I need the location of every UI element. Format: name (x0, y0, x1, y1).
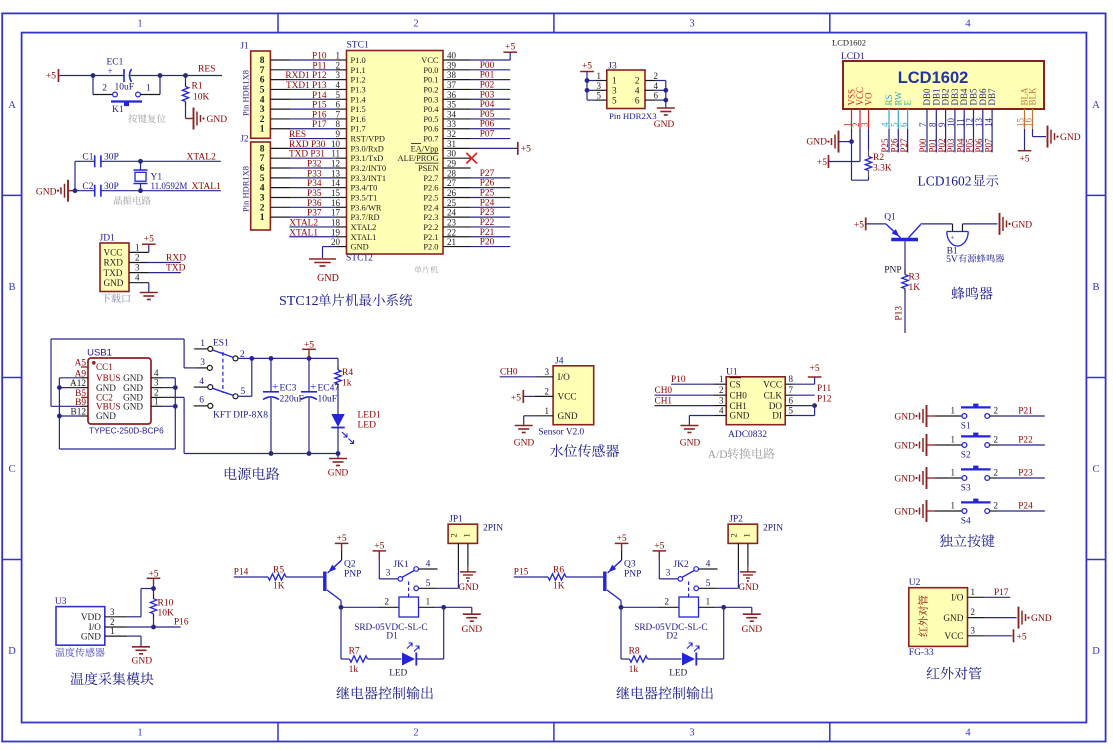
node J3 pin3 (585, 88, 590, 93)
svg-text:GND: GND (558, 412, 578, 422)
svg-text:P21: P21 (1018, 407, 1033, 417)
svg-text:30: 30 (447, 149, 457, 159)
svg-text:P07: P07 (480, 130, 495, 140)
ground relay (743, 613, 761, 615)
wire S4 left (935, 510, 962, 512)
node C2 GND (73, 188, 78, 193)
svg-text:1K: 1K (909, 283, 921, 293)
title 蜂鸣器 (951, 287, 992, 300)
svg-text:LED1: LED1 (358, 411, 381, 421)
svg-text:K1: K1 (112, 105, 124, 115)
svg-text:10K: 10K (193, 93, 210, 103)
ground relay (463, 613, 481, 615)
svg-text:2: 2 (260, 203, 265, 213)
svg-text:24: 24 (447, 208, 457, 218)
wire Q1 collector to buzzer (921, 223, 953, 225)
wires J3 right pins (645, 80, 655, 82)
svg-text:GND: GND (81, 632, 101, 642)
svg-text:R4: R4 (342, 368, 353, 378)
svg-text:4: 4 (135, 273, 140, 283)
wire P11 U1 (793, 394, 815, 396)
svg-text:5: 5 (241, 387, 246, 397)
node reset left (91, 73, 96, 78)
svg-text:GND: GND (738, 583, 758, 593)
wire R2 bottom to VSS (852, 179, 869, 181)
wire C1 left to vertical (75, 160, 95, 162)
node J3 pin6 (663, 98, 668, 103)
node Q2 collector (339, 605, 344, 610)
JP2 pin1 wire (747, 543, 749, 566)
svg-text:GND: GND (123, 402, 143, 412)
label 红外对管 inside U2 (918, 595, 928, 636)
USB1 pin stubs left (81, 366, 88, 368)
svg-text:XTAL1: XTAL1 (192, 182, 222, 192)
svg-text:JD1: JD1 (100, 234, 116, 244)
svg-text:13: 13 (331, 168, 341, 178)
svg-text:6: 6 (789, 396, 794, 406)
ground MCU pin 20 (336, 246, 347, 248)
resistor R5 (268, 574, 286, 580)
svg-text:TXD: TXD (104, 268, 123, 278)
wire ES1 pin2 to rail (238, 357, 252, 359)
ground J4 (524, 415, 535, 417)
svg-text:LCD1602: LCD1602 (918, 174, 972, 189)
capacitor EC47 (308, 358, 310, 391)
power +5 JD1 (148, 245, 150, 253)
svg-text:+5: +5 (817, 158, 827, 168)
capacitor EC3 (270, 358, 272, 391)
JK2 lever (682, 571, 694, 578)
svg-text:S3: S3 (961, 483, 971, 493)
svg-text:P3.5/T1: P3.5/T1 (351, 193, 378, 202)
svg-text:P20: P20 (480, 238, 495, 248)
svg-text:1: 1 (612, 76, 617, 86)
svg-text:EC3: EC3 (280, 384, 297, 394)
svg-text:LED: LED (389, 669, 407, 679)
svg-text:8: 8 (336, 119, 341, 129)
svg-text:R10: R10 (158, 599, 174, 609)
title 继电器控制输出 (617, 686, 713, 699)
svg-text:+5: +5 (46, 72, 56, 82)
node LCD VSS gnd (849, 139, 854, 144)
svg-text:1K: 1K (553, 582, 565, 592)
svg-text:3: 3 (260, 105, 265, 115)
svg-text:+5: +5 (617, 534, 627, 544)
svg-text:+5: +5 (511, 393, 521, 403)
svg-text:DO: DO (769, 401, 783, 411)
svg-text:P11: P11 (312, 61, 326, 71)
wire to LED (648, 658, 682, 660)
resistor R8 (630, 656, 648, 662)
svg-text:P23: P23 (480, 208, 495, 218)
svg-text:GND: GND (96, 411, 116, 421)
svg-text:Pin HDR1X8: Pin HDR1X8 (241, 166, 251, 212)
svg-text:5V: 5V (946, 255, 958, 265)
node bus EC3 (269, 451, 274, 456)
svg-text:2: 2 (385, 596, 390, 606)
svg-text:21: 21 (447, 237, 456, 247)
svg-text:3: 3 (612, 86, 617, 96)
svg-text:GND: GND (514, 439, 535, 449)
svg-text:9: 9 (336, 129, 341, 139)
gnd bus B (184, 453, 338, 455)
resistor R7 (350, 656, 368, 662)
wire to LED (368, 658, 402, 660)
LED D1 (402, 653, 415, 666)
power +5 MCU pin 40 (443, 59, 471, 61)
svg-text:P14: P14 (234, 568, 249, 578)
svg-text:GND: GND (351, 243, 369, 252)
LCD data wires down (888, 129, 890, 152)
wire CH0 J4 (500, 376, 535, 378)
JK1 dashed gang (408, 582, 410, 597)
title 水位传感器 (550, 444, 619, 457)
ES1 pin6 stub (194, 405, 208, 407)
ES1 pin3 circle (207, 365, 212, 370)
svg-text:27: 27 (447, 178, 457, 188)
svg-text:LCD1602: LCD1602 (832, 38, 866, 48)
svg-text:P16: P16 (312, 110, 327, 120)
wire S2 left (935, 444, 962, 446)
wire U1 DI join (793, 415, 815, 417)
svg-text:P1.7: P1.7 (351, 125, 366, 134)
svg-text:+5: +5 (374, 541, 384, 551)
svg-text:2: 2 (413, 19, 418, 30)
svg-text:2: 2 (449, 533, 459, 537)
svg-text:1k: 1k (629, 665, 639, 675)
U1 right stubs (785, 383, 792, 385)
USB1 pin stubs right (151, 377, 162, 379)
svg-text:PNP: PNP (884, 265, 901, 275)
svg-text:8: 8 (260, 144, 265, 154)
svg-text:2: 2 (994, 406, 999, 416)
svg-text:P1.4: P1.4 (351, 95, 367, 104)
relay coil JK1 (399, 597, 419, 617)
wire down to K1 pin1 (159, 76, 161, 95)
svg-text:P04: P04 (480, 100, 495, 110)
svg-text:14: 14 (331, 178, 341, 188)
svg-text:P2.1: P2.1 (423, 233, 438, 242)
label 晶振电路 (114, 196, 151, 205)
wire LED to right (696, 658, 723, 660)
wire ES1 pin5 to rail (238, 395, 252, 397)
svg-text:P3.7/RD: P3.7/RD (351, 213, 380, 222)
node R10 I/O (151, 625, 156, 630)
wire C1 to XTAL2 (101, 160, 221, 162)
+5 rail (252, 357, 338, 359)
wire P15 to R6 (514, 576, 548, 578)
svg-text:16: 16 (331, 198, 341, 208)
svg-text:CLK: CLK (764, 390, 783, 400)
svg-text:GND: GND (680, 439, 701, 449)
svg-text:17: 17 (331, 208, 341, 218)
title 继电器控制输出 (337, 686, 433, 699)
wire +5 to Q1 emitter (867, 223, 886, 225)
svg-text:BLK: BLK (1028, 87, 1038, 106)
svg-text:P33: P33 (307, 169, 322, 179)
wire P14 to R5 (234, 576, 268, 578)
svg-text:CC1: CC1 (96, 362, 113, 372)
ground buzzer (999, 213, 1001, 235)
svg-text:P0.7: P0.7 (423, 135, 438, 144)
svg-text:GND: GND (730, 411, 750, 421)
JP1 pin1 wire (467, 543, 469, 566)
svg-text:STC1: STC1 (347, 41, 369, 51)
svg-text:C: C (8, 464, 15, 475)
svg-text:1k: 1k (342, 379, 352, 389)
ES1 pin1 circle (208, 346, 213, 351)
svg-text:LCD1602: LCD1602 (898, 69, 969, 87)
svg-text:GND: GND (458, 583, 478, 593)
node U1 DO DI (812, 403, 817, 408)
wire EC1 to RES node (131, 75, 223, 77)
svg-text:JP2: JP2 (729, 515, 743, 525)
node relay right (721, 605, 726, 610)
svg-text:P0.6: P0.6 (423, 125, 438, 134)
svg-text:4: 4 (706, 559, 711, 569)
Q3 collector (607, 590, 621, 601)
wire LCD VSS down (851, 129, 853, 180)
svg-text:P0.3: P0.3 (423, 95, 438, 104)
svg-text:P1.1: P1.1 (351, 66, 366, 75)
svg-text:3.3K: 3.3K (873, 164, 892, 174)
relay coil JK2 (679, 597, 699, 617)
U1 CS overline (730, 377, 742, 379)
frame column ticks (277, 13, 279, 32)
svg-text:1: 1 (719, 374, 724, 384)
svg-text:P12: P12 (817, 395, 832, 405)
svg-text:1: 1 (462, 533, 472, 537)
svg-text:DI: DI (772, 411, 782, 421)
svg-text:29: 29 (447, 159, 457, 169)
svg-text:2PIN: 2PIN (483, 524, 503, 534)
svg-text:GND: GND (943, 614, 963, 624)
JK2 dashed gang (688, 582, 690, 597)
svg-text:2: 2 (545, 386, 550, 396)
svg-text:1: 1 (260, 213, 265, 223)
svg-text:1: 1 (951, 501, 956, 511)
svg-text:JP1: JP1 (449, 515, 463, 525)
svg-text:A/D: A/D (708, 449, 728, 461)
svg-text:P10: P10 (671, 375, 686, 385)
ES1 pin2 circle (233, 356, 238, 361)
resistor R6 (548, 574, 566, 580)
ES1 pin6 circle (208, 403, 213, 408)
resistor R2 (868, 129, 870, 150)
ground JP2 (740, 571, 756, 573)
wire +5 to EC1 (60, 75, 125, 77)
svg-text:P2.6: P2.6 (423, 184, 438, 193)
svg-text:2: 2 (336, 60, 341, 70)
svg-text:RES: RES (198, 65, 215, 75)
svg-text:XTAL2: XTAL2 (289, 218, 318, 228)
svg-text:11: 11 (331, 149, 340, 159)
svg-text:P3.2/INT0: P3.2/INT0 (351, 164, 387, 173)
svg-text:ADC0832: ADC0832 (728, 430, 767, 440)
svg-text:VBUS: VBUS (96, 402, 121, 412)
svg-text:36: 36 (447, 90, 457, 100)
svg-text:3: 3 (545, 367, 550, 377)
svg-text:GND: GND (207, 115, 228, 125)
wires MCU P27-P20 (443, 177, 471, 179)
svg-text:15: 15 (331, 188, 341, 198)
svg-text:3: 3 (336, 70, 341, 80)
pin stubs JD1 (129, 251, 149, 253)
svg-text:J2: J2 (241, 134, 249, 144)
wire buzzer to GND (962, 224, 964, 232)
svg-text:I/O: I/O (558, 373, 571, 383)
switch S1 (962, 414, 967, 419)
svg-text:P2.2: P2.2 (423, 223, 438, 232)
svg-text:GND: GND (742, 625, 763, 635)
buzzer B1 (947, 231, 968, 233)
svg-text:P24: P24 (1018, 502, 1033, 512)
svg-text:P3.4/T0: P3.4/T0 (351, 184, 378, 193)
svg-text:12: 12 (331, 159, 340, 169)
node B12 (57, 414, 62, 419)
svg-text:Pin HDR1X8: Pin HDR1X8 (241, 70, 251, 116)
svg-text:LED: LED (669, 669, 687, 679)
svg-text:P37: P37 (307, 209, 322, 219)
svg-text:+5: +5 (654, 541, 664, 551)
node rail +5 (307, 356, 312, 361)
svg-text:P35: P35 (307, 189, 322, 199)
wire LCD VCC down (859, 129, 861, 162)
svg-text:A: A (1092, 100, 1100, 111)
svg-text:3: 3 (666, 569, 671, 579)
svg-text:+5: +5 (854, 220, 864, 230)
svg-text:4: 4 (654, 81, 659, 91)
wire relay loop left (340, 607, 342, 659)
svg-text:1: 1 (545, 406, 550, 416)
svg-text:7: 7 (336, 109, 341, 119)
ground JD1 (148, 283, 150, 293)
svg-text:1: 1 (135, 242, 140, 252)
svg-text:GND: GND (894, 475, 915, 485)
svg-text:P15: P15 (514, 568, 529, 578)
LED LED1 (331, 414, 344, 427)
svg-text:P36: P36 (307, 199, 322, 209)
no connect X MCU pin 30 (443, 157, 471, 159)
wire R5 to Q2 base (286, 576, 323, 578)
svg-text:FG-33: FG-33 (909, 648, 934, 658)
svg-text:+5: +5 (505, 43, 515, 53)
transistor Q2 (323, 572, 326, 592)
svg-text:+5: +5 (810, 364, 820, 374)
wire +5 to VDD (141, 588, 154, 590)
svg-text:LED: LED (358, 421, 377, 431)
LED D2 (682, 653, 695, 666)
svg-text:28: 28 (447, 168, 457, 178)
JK2 pin5 (694, 586, 699, 591)
crystal Y1 (140, 161, 142, 170)
svg-text:CH1: CH1 (655, 397, 673, 407)
svg-text:3: 3 (386, 569, 391, 579)
svg-text:B: B (8, 282, 15, 293)
wire I/O P16 (127, 626, 180, 628)
svg-text:2: 2 (994, 468, 999, 478)
ES1 pin4 circle (208, 385, 213, 390)
wire XTAL2 to MCU pin 18 (289, 226, 336, 228)
label 温度传感器 (55, 648, 104, 657)
svg-text:PSEN: PSEN (418, 164, 438, 173)
Q2 emitter (328, 560, 342, 573)
svg-text:P25: P25 (480, 188, 495, 198)
svg-text:39: 39 (447, 60, 457, 70)
svg-text:XTAL1: XTAL1 (289, 228, 318, 238)
svg-text:VCC: VCC (421, 56, 439, 65)
ground power circuit (337, 454, 339, 459)
svg-text:1: 1 (951, 435, 956, 445)
svg-text:C: C (1092, 464, 1099, 475)
svg-text:TXD1 P13: TXD1 P13 (286, 81, 327, 91)
svg-text:32: 32 (447, 129, 456, 139)
svg-text:EC47: EC47 (318, 384, 340, 394)
svg-text:GND: GND (328, 469, 349, 479)
svg-text:R6: R6 (553, 565, 564, 575)
svg-text:P24: P24 (480, 198, 495, 208)
JK1 pin5 (414, 586, 419, 591)
svg-text:7: 7 (260, 154, 265, 164)
wire Q1 base down (904, 241, 906, 269)
svg-text:2: 2 (102, 84, 107, 94)
wire relay to GND (444, 606, 472, 608)
JK1 pin4 (414, 567, 419, 572)
svg-text:1: 1 (742, 533, 752, 537)
wire top to ES1 pin3 (183, 339, 185, 368)
svg-text:KFT DIP-8X8: KFT DIP-8X8 (213, 411, 268, 421)
wire CH1 U1 (655, 405, 714, 407)
svg-text:4: 4 (336, 80, 341, 90)
svg-text:ALE/PROG: ALE/PROG (398, 154, 439, 163)
title 独立按键 (939, 534, 994, 547)
wire S4 right (990, 510, 997, 512)
svg-text:P16: P16 (174, 617, 189, 627)
resistor R3 (902, 275, 908, 289)
resistor R1 (185, 76, 187, 84)
svg-text:P0.1: P0.1 (423, 76, 438, 85)
svg-text:P3.0/RxD: P3.0/RxD (351, 144, 384, 153)
wire collector to relay coil (341, 606, 379, 608)
node RES (183, 73, 188, 78)
svg-text:P2.4: P2.4 (423, 203, 439, 212)
svg-text:2: 2 (994, 501, 999, 511)
svg-text:3: 3 (260, 193, 265, 203)
switch S3 (962, 476, 967, 481)
wire RES to MCU pin 9 (289, 138, 336, 140)
svg-text:26: 26 (447, 188, 457, 198)
stub MCU pin 29 PSEN (443, 167, 471, 169)
svg-text:4: 4 (199, 377, 204, 387)
svg-text:GND: GND (123, 373, 143, 383)
power +5 MCU pin 31 EA (443, 147, 471, 149)
svg-text:19: 19 (331, 227, 341, 237)
svg-text:4: 4 (260, 184, 265, 194)
svg-text:GND: GND (96, 383, 116, 393)
svg-text:3: 3 (689, 728, 694, 739)
svg-text:R8: R8 (629, 647, 640, 657)
svg-text:5: 5 (789, 406, 794, 416)
svg-text:6: 6 (635, 95, 640, 105)
svg-text:P0.2: P0.2 (423, 85, 438, 94)
svg-text:Pin HDR2X3: Pin HDR2X3 (609, 111, 657, 121)
svg-text:35: 35 (447, 100, 457, 110)
svg-text:31: 31 (447, 139, 456, 149)
svg-text:D: D (1092, 646, 1100, 657)
node usb pin3 gnd (173, 385, 178, 390)
svg-text:7: 7 (789, 385, 794, 395)
svg-text:1: 1 (260, 125, 265, 135)
